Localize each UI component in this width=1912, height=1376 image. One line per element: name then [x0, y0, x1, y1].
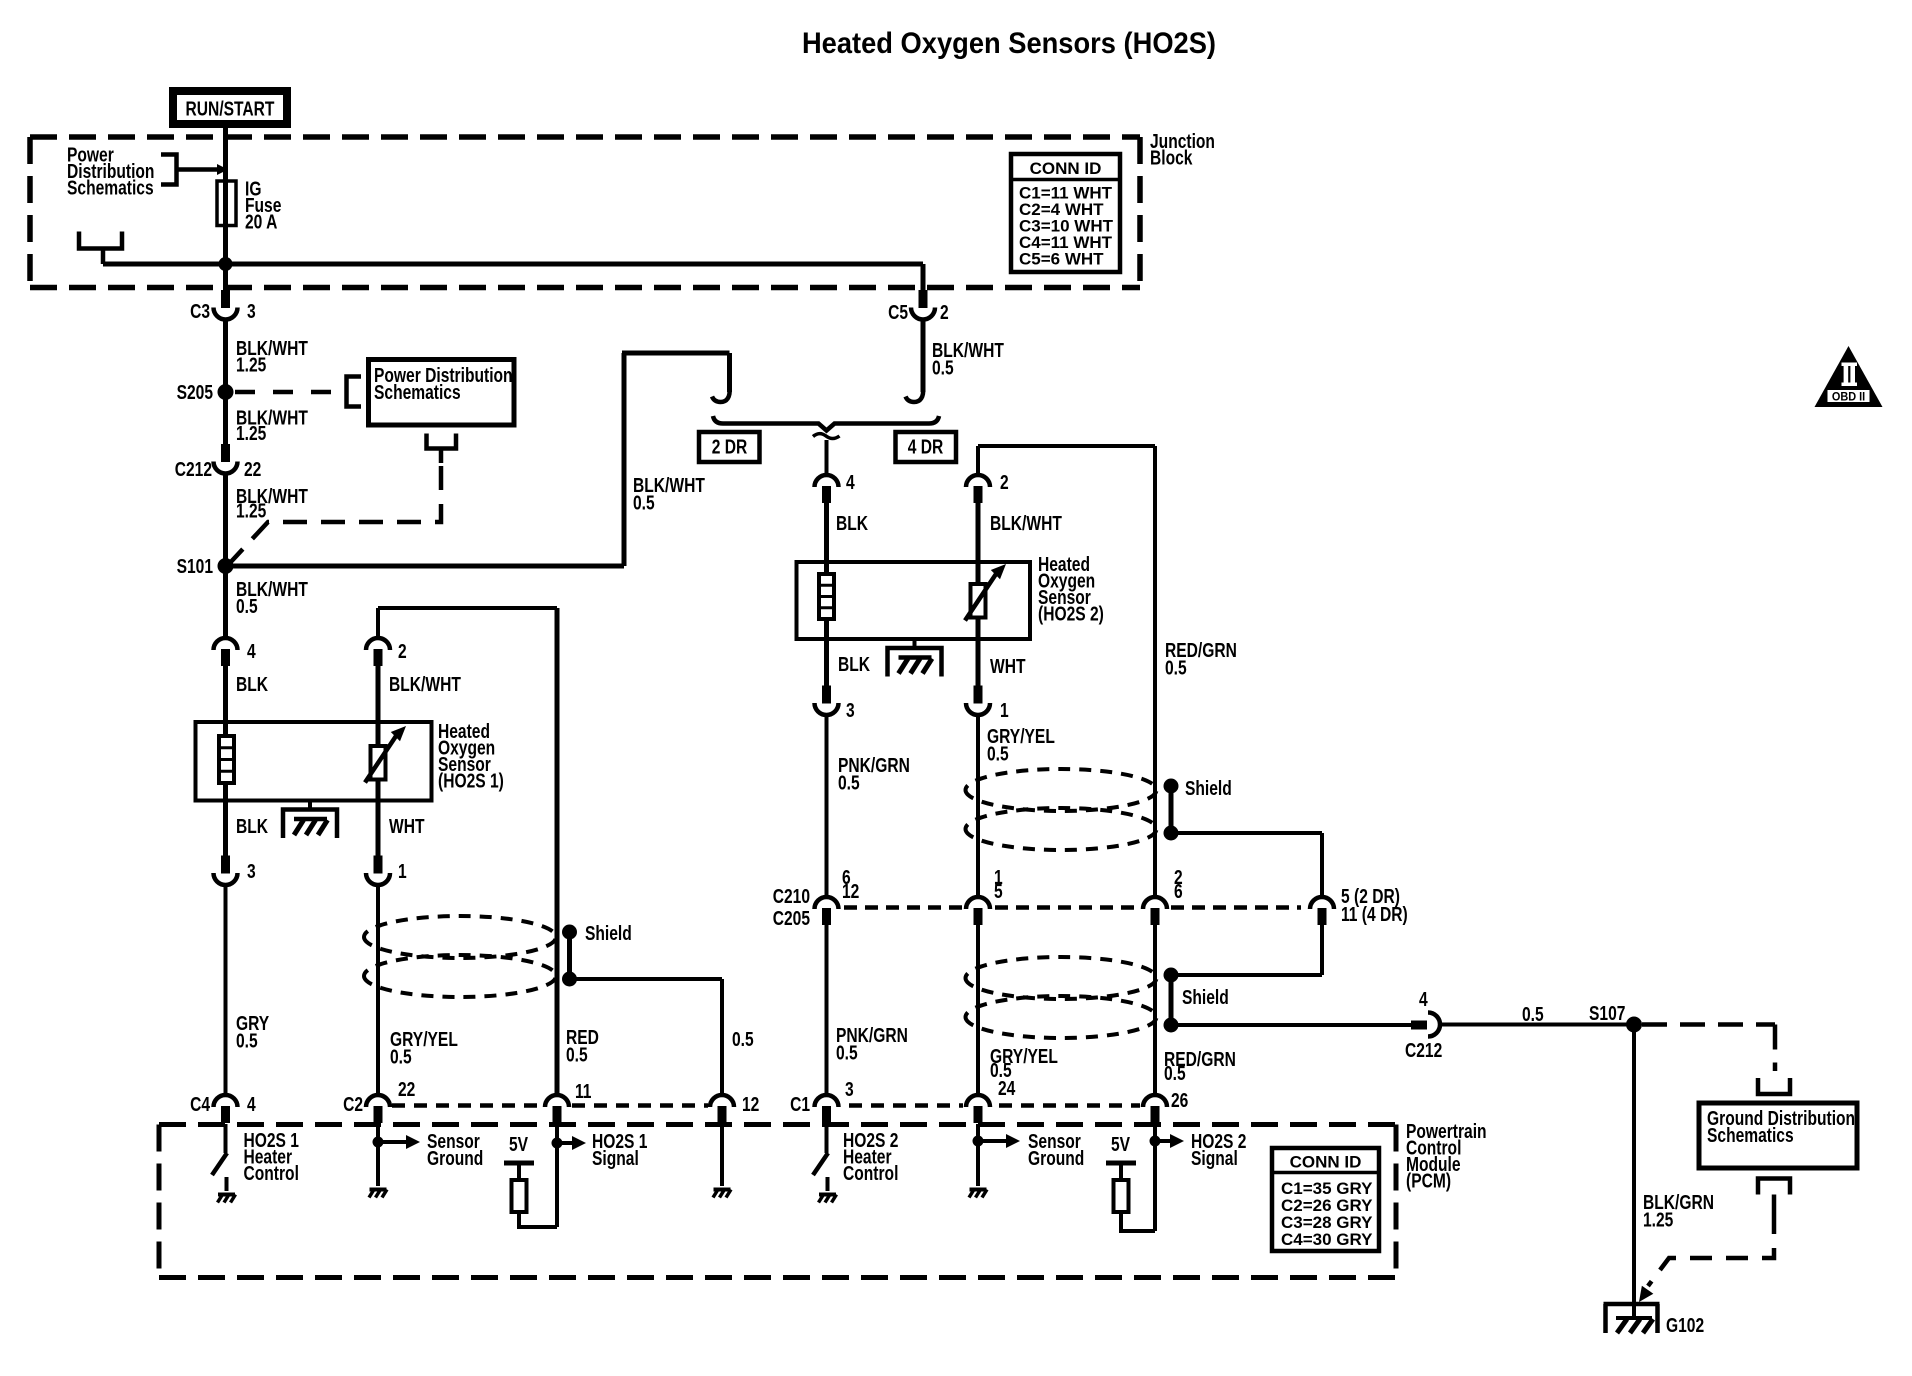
- svg-text:5: 5: [994, 880, 1003, 902]
- HO2S2 lower shield: [966, 957, 1157, 999]
- svg-text:12: 12: [742, 1093, 759, 1115]
- svg-text:2 DR: 2 DR: [712, 436, 748, 458]
- HO2S2 sensing element (variable resistor): [976, 503, 981, 584]
- svg-text:Block: Block: [1150, 147, 1192, 169]
- svg-text:C2: C2: [343, 1093, 363, 1115]
- dashed reference to Power Distribution Schematics: [235, 390, 342, 395]
- PCM pin 12: [710, 1095, 734, 1107]
- svg-text:WHT: WHT: [389, 815, 425, 837]
- svg-text:Ground: Ground: [1028, 1147, 1084, 1169]
- svg-text:5V: 5V: [1111, 1133, 1130, 1155]
- splice S205: [218, 384, 234, 400]
- svg-text:0.5: 0.5: [1165, 657, 1187, 679]
- HO2S1 connector pin 4: [214, 638, 238, 650]
- C210 pin 2/6: [1143, 897, 1167, 909]
- svg-text:BLK: BLK: [236, 673, 268, 695]
- svg-text:CONN ID: CONN ID: [1030, 159, 1102, 178]
- svg-text:22: 22: [398, 1078, 415, 1100]
- PCM pin C2-22: [366, 1095, 390, 1107]
- svg-text:S101: S101: [177, 555, 213, 577]
- PCM pin 11: [545, 1095, 569, 1107]
- svg-text:4: 4: [1419, 988, 1428, 1010]
- svg-text:5V: 5V: [509, 1133, 528, 1155]
- svg-text:Heated Oxygen Sensors (HO2S): Heated Oxygen Sensors (HO2S): [802, 27, 1216, 60]
- svg-text:BLK/WHT: BLK/WHT: [990, 512, 1062, 534]
- svg-text:Shield: Shield: [585, 922, 632, 944]
- svg-text:C212: C212: [175, 458, 212, 480]
- PCM CONN ID table: [1272, 1148, 1379, 1251]
- power source box RUN/START: [169, 87, 291, 128]
- svg-text:1.25: 1.25: [236, 500, 266, 522]
- svg-text:0.5: 0.5: [633, 492, 655, 514]
- svg-text:26: 26: [1171, 1089, 1188, 1111]
- splice S101: [218, 558, 234, 574]
- ground G102: [1604, 1304, 1660, 1333]
- svg-text:22: 22: [244, 458, 261, 480]
- svg-text:C212: C212: [1405, 1039, 1442, 1061]
- box Power Distribution Schematics: [369, 360, 515, 426]
- stub bracket to other circuits: [79, 232, 122, 249]
- connector C5 pin 2: [919, 290, 928, 308]
- svg-text:Signal: Signal: [592, 1147, 639, 1169]
- svg-text:Schematics: Schematics: [374, 381, 461, 403]
- wire: shield drain to PCM pin 12: [570, 977, 723, 981]
- option merge brace 2DR/4DR: [713, 416, 939, 431]
- svg-text:4: 4: [247, 640, 256, 662]
- svg-text:0.5: 0.5: [1164, 1062, 1186, 1084]
- svg-text:Shield: Shield: [1185, 777, 1232, 799]
- PCM connector row dotted line: [392, 1103, 543, 1108]
- svg-text:S107: S107: [1589, 1002, 1625, 1024]
- svg-text:4: 4: [247, 1093, 256, 1115]
- svg-text:3: 3: [247, 300, 256, 322]
- svg-text:Control: Control: [843, 1162, 898, 1184]
- svg-text:C3: C3: [190, 300, 210, 322]
- wire: C212 to S101 to HO2S1 pin 4: [223, 473, 228, 638]
- svg-text:3: 3: [247, 860, 256, 882]
- PCM HO2S1 signal pin 11: [555, 1124, 559, 1227]
- svg-text:1.25: 1.25: [1643, 1209, 1673, 1231]
- bracket + arrow to fuse wire: [161, 155, 177, 185]
- svg-text:0.5: 0.5: [838, 772, 860, 794]
- HO2S1 connector pin 3: [221, 856, 230, 874]
- splice S107: [1626, 1017, 1642, 1033]
- junction block CONN ID table: [1011, 154, 1120, 272]
- svg-text:WHT: WHT: [990, 655, 1026, 677]
- HO2S2 connector pin 4: [815, 475, 839, 487]
- PCM HO2S1 heater control switch: [224, 1124, 228, 1153]
- svg-text:Schematics: Schematics: [67, 177, 154, 199]
- junction node at fuse column: [219, 257, 233, 271]
- svg-text:0.5: 0.5: [836, 1042, 858, 1064]
- PCM sensor ground pin 24: [976, 1124, 980, 1186]
- C210 pin 1/5: [966, 897, 990, 909]
- svg-text:0.5: 0.5: [987, 743, 1009, 765]
- svg-text:0.5: 0.5: [236, 1030, 258, 1052]
- HO2S1 sensing element (variable resistor): [376, 666, 381, 746]
- svg-text:BLK/WHT: BLK/WHT: [389, 673, 461, 695]
- HO2S1 connector pin 1: [374, 856, 383, 874]
- svg-text:C210: C210: [773, 885, 810, 907]
- wire: HO2S2 signal loop top RED/GRN: [976, 446, 980, 475]
- svg-text:Signal: Signal: [1191, 1147, 1238, 1169]
- PCM pin 24: [966, 1095, 990, 1107]
- svg-text:11 (4 DR): 11 (4 DR): [1341, 903, 1408, 925]
- connector C3 pin 3: [221, 290, 230, 308]
- HO2S2 heater element: [824, 503, 829, 574]
- fuse IG 20 A: [217, 181, 236, 226]
- PCM HO2S2 heater control switch: [825, 1124, 829, 1153]
- HO2S1 case ground: [308, 801, 312, 810]
- svg-text:11: 11: [575, 1080, 592, 1102]
- wire: RUN/START down through IG fuse to C3: [223, 126, 228, 291]
- svg-text:Control: Control: [244, 1162, 299, 1184]
- bracket below box + dashed path to S101: [427, 434, 457, 449]
- svg-text:0.5: 0.5: [932, 357, 954, 379]
- svg-text:6: 6: [1174, 880, 1183, 902]
- svg-text:2: 2: [398, 640, 407, 662]
- svg-text:C4: C4: [190, 1093, 210, 1115]
- box Ground Distribution Schematics: [1699, 1103, 1857, 1168]
- wire: HO2S2 column down to PCM pins: [825, 925, 829, 1095]
- svg-text:C4=30 GRY: C4=30 GRY: [1281, 1230, 1373, 1249]
- HO2S2 connector pin 3: [822, 686, 831, 704]
- HO2S1 connector pin 2: [366, 638, 390, 650]
- wire: option pin to lower shield: [1320, 925, 1324, 975]
- wire: HO2S2 pin1 to C210 pin 1: [976, 715, 980, 897]
- svg-text:12: 12: [842, 880, 859, 902]
- svg-text:0.5: 0.5: [1522, 1003, 1544, 1025]
- wire: HO2S2 pin3 to C210 pin 6: [825, 715, 829, 897]
- svg-text:0.5: 0.5: [236, 595, 258, 617]
- svg-text:Shield: Shield: [1182, 986, 1229, 1008]
- wire: shield drain to C212 pin 4: [1171, 1023, 1413, 1027]
- svg-text:BLK: BLK: [836, 512, 868, 534]
- svg-text:C5: C5: [888, 301, 908, 323]
- junction block dashed border: [30, 134, 1140, 140]
- wire end hooks above brace: [712, 388, 730, 402]
- svg-text:1.25: 1.25: [236, 422, 266, 444]
- PCM ground pin 12: [720, 1124, 724, 1186]
- C210 pin 6/12: [815, 897, 839, 909]
- svg-text:1: 1: [1000, 699, 1009, 721]
- svg-text:BLK: BLK: [236, 815, 268, 837]
- PCM sensor ground pin 22: [376, 1124, 380, 1186]
- svg-text:2: 2: [940, 301, 949, 323]
- svg-text:Ground: Ground: [427, 1147, 483, 1169]
- HO2S1 shield: [364, 916, 556, 958]
- HO2S2 upper shield: [966, 769, 1157, 811]
- svg-text:4: 4: [846, 471, 855, 493]
- svg-text:1.25: 1.25: [236, 354, 266, 376]
- svg-text:0.5: 0.5: [732, 1028, 754, 1050]
- HO2S2 case ground: [913, 639, 917, 648]
- wire: to splice S107: [1440, 1023, 1628, 1027]
- svg-text:Schematics: Schematics: [1707, 1124, 1794, 1146]
- svg-text:2: 2: [1000, 471, 1009, 493]
- svg-text:0.5: 0.5: [566, 1044, 588, 1066]
- wire: C3 to C212: [223, 320, 228, 444]
- OBD II symbol: [1815, 346, 1883, 407]
- svg-text:24: 24: [998, 1077, 1015, 1099]
- HO2S2 connector pin 2: [966, 475, 990, 487]
- svg-text:C5=6 WHT: C5=6 WHT: [1019, 250, 1104, 269]
- C210 pin 5(2DR)/11(4DR): [1310, 897, 1334, 909]
- HO2S1 heater element: [223, 666, 228, 736]
- wire: HO2S1 signal loop top: [376, 608, 380, 638]
- wire: C5 down to option brace (4 DR path): [921, 320, 926, 392]
- svg-text:1: 1: [398, 860, 407, 882]
- svg-text:20 A: 20 A: [245, 211, 277, 233]
- svg-text:3: 3: [846, 699, 855, 721]
- svg-text:C205: C205: [773, 907, 810, 929]
- svg-text:0.5: 0.5: [390, 1046, 412, 1068]
- svg-text:RUN/START: RUN/START: [186, 98, 275, 120]
- wire: shield drain to option pin 5/11: [1171, 831, 1322, 835]
- HO2S1 sensor box: [196, 722, 432, 801]
- PCM HO2S2 signal pin 26: [1153, 1124, 1157, 1231]
- svg-text:(PCM): (PCM): [1406, 1170, 1451, 1192]
- svg-text:OBD II: OBD II: [1832, 391, 1865, 403]
- connector C212 pin 22: [221, 444, 230, 462]
- svg-text:3: 3: [845, 1078, 854, 1100]
- svg-text:BLK: BLK: [838, 653, 870, 675]
- option box 2 DR: [699, 432, 760, 462]
- svg-text:CONN ID: CONN ID: [1290, 1153, 1362, 1172]
- wire: HO2S1 pin1 to PCM C2 pin 22: [376, 885, 380, 1095]
- HO2S2 sensor box: [797, 562, 1031, 639]
- PCM pin C4-4: [214, 1095, 238, 1107]
- dashed reference: S107 to Ground Distribution Schematics: [1642, 1022, 1775, 1027]
- connector C212 pin 4 (horizontal): [1411, 1021, 1427, 1030]
- PCM dashed border: [159, 1122, 1396, 1127]
- svg-text:(HO2S 1): (HO2S 1): [438, 770, 504, 792]
- HO2S2 connector pin 1: [974, 686, 983, 704]
- C210/C205 connector row (dashed): [844, 905, 963, 910]
- wire: junction block bus to C5: [103, 262, 923, 267]
- wire: HO2S1 pin3 to PCM C4 pin 4: [224, 885, 228, 1095]
- PCM pin C1-3: [815, 1095, 839, 1107]
- bracket + dashed path to G102: [1758, 1179, 1790, 1195]
- wire: S107 to ground G102 BLK/GRN: [1632, 1025, 1636, 1319]
- svg-text:C1: C1: [790, 1093, 810, 1115]
- svg-text:S205: S205: [177, 381, 213, 403]
- svg-text:(HO2S 2): (HO2S 2): [1038, 603, 1104, 625]
- PCM pin 26: [1143, 1095, 1167, 1107]
- wire: S101 branch to option brace (2 DR path): [226, 353, 730, 566]
- svg-text:G102: G102: [1666, 1314, 1704, 1336]
- svg-text:4 DR: 4 DR: [908, 436, 944, 458]
- option box 4 DR: [896, 432, 957, 462]
